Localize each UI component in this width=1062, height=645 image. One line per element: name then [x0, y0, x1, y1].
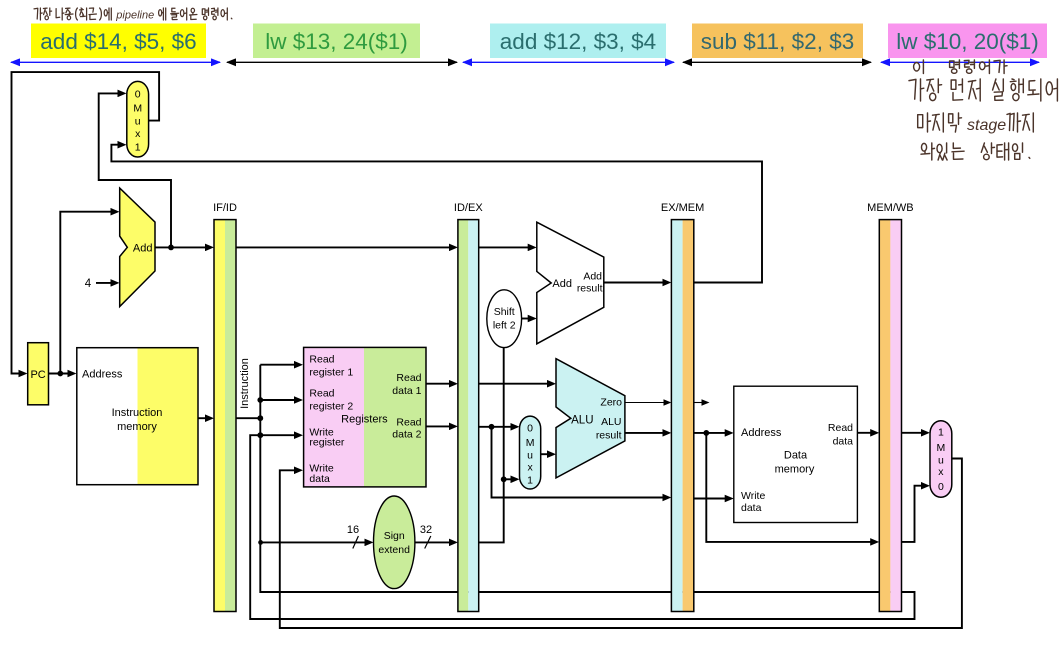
svg-text:x: x — [135, 128, 141, 140]
instruction label lw $10,20($1) — [888, 24, 1047, 59]
svg-text:Read: Read — [396, 372, 421, 384]
stage span arrow ID (black) — [227, 61, 457, 63]
wire: EX/MEM ALU result to Data memory Address — [694, 432, 731, 434]
wire: EX/MEM store data to Data memory Write data — [694, 498, 731, 500]
svg-text:EX/MEM: EX/MEM — [661, 202, 704, 214]
wire: ID/EX read data 2 to ALU mux input 0 — [479, 426, 517, 428]
svg-text:0: 0 — [527, 423, 533, 435]
pipeline register EX/MEM — [671, 220, 682, 612]
svg-text:M: M — [526, 437, 535, 449]
svg-text:x: x — [527, 462, 533, 474]
wire: immediate up to shift left 2 and ALU mux input 1 — [479, 348, 504, 543]
svg-text:Instruction: Instruction — [239, 358, 251, 409]
instruction label sub $11,$2,$3 — [692, 24, 863, 59]
wire: MEM/WB read data to WB mux input 1 — [902, 432, 928, 434]
node: instruction bus junctions — [257, 397, 263, 403]
wire: Data memory Read data to MEM/WB — [857, 432, 876, 434]
instruction memory — [77, 348, 198, 485]
svg-text:Zero: Zero — [600, 396, 622, 408]
wire: Add(branch) result to EX/MEM — [604, 282, 669, 284]
svg-text:x: x — [938, 466, 944, 478]
svg-text:0: 0 — [135, 89, 141, 101]
wire: bus to Read register 2 — [260, 399, 300, 401]
sign extend — [374, 496, 415, 589]
wire: IF/ID instruction bus — [236, 417, 260, 419]
instruction label lw $13,24($1) — [253, 24, 420, 59]
wire: instruction memory to IF/ID — [198, 417, 212, 419]
instruction label add $14,$5,$6 — [31, 24, 206, 59]
svg-text:Read: Read — [828, 422, 853, 434]
shift left 2 — [487, 290, 522, 348]
svg-text:Write: Write — [741, 490, 765, 502]
wire: constant 4 into Add — [96, 282, 117, 284]
svg-text:register 1: register 1 — [309, 367, 353, 379]
svg-text:PC: PC — [30, 369, 45, 381]
pipeline register IF/ID — [214, 220, 225, 612]
svg-text:Add: Add — [583, 271, 602, 283]
svg-text:Read: Read — [309, 354, 334, 366]
svg-text:4: 4 — [85, 278, 92, 290]
svg-text:memory: memory — [117, 421, 157, 433]
data memory — [734, 386, 858, 522]
svg-text:data: data — [833, 436, 854, 448]
wire: WB mux output loop to Registers Write data — [280, 459, 962, 629]
svg-text:Sign: Sign — [384, 530, 405, 542]
svg-text:data 2: data 2 — [392, 428, 421, 440]
registers block — [304, 347, 364, 487]
wire: mux output loop to PC — [12, 72, 160, 373]
svg-text:1: 1 — [527, 475, 533, 487]
svg-text:1: 1 — [938, 427, 944, 439]
svg-text:add $12, $3, $4: add $12, $3, $4 — [500, 29, 656, 54]
svg-text:32: 32 — [420, 524, 432, 536]
svg-text:Data: Data — [784, 450, 808, 462]
svg-text:Add: Add — [552, 278, 572, 290]
wire: instruction bus vertical + write-reg bottom loop A/B — [250, 365, 914, 619]
svg-text:stage: stage — [967, 117, 1006, 134]
wire: ALU result to EX/MEM — [625, 432, 669, 434]
wire: read data 2 down to EX/MEM (store data) — [492, 427, 669, 498]
wire: ID/EX PC+4 to Add (branch adder) — [479, 246, 535, 248]
svg-text:extend: extend — [378, 544, 410, 556]
wire: Registers Read data 2 to ID/EX — [426, 425, 455, 427]
svg-text:u: u — [938, 455, 944, 467]
handwritten note right — [909, 60, 1057, 160]
svg-text:add $14, $5, $6: add $14, $5, $6 — [40, 29, 196, 54]
svg-text:memory: memory — [775, 464, 815, 476]
PC — [28, 343, 49, 405]
svg-text:MEM/WB: MEM/WB — [867, 202, 913, 214]
wire: Add output to IF/ID — [155, 246, 212, 248]
stage span arrow IF (blue) — [11, 61, 220, 63]
wire: Registers Read data 1 to ID/EX — [426, 383, 455, 385]
wire: PC+4 loop to mux input 0 — [99, 93, 171, 247]
wire: ALU result around memory to MEM/WB — [706, 433, 876, 542]
adder PC+4 (Add) — [120, 188, 155, 306]
wire: IF/ID PC+4 to ID/EX — [236, 246, 455, 248]
svg-text:1: 1 — [135, 142, 141, 154]
instruction label add $12,$3,$4 — [490, 24, 666, 59]
wire: ALU Zero to EX/MEM (thin) — [625, 402, 669, 404]
pc mux (0 Mux 1) — [127, 81, 149, 157]
adder branch target (Add) white — [537, 222, 604, 344]
svg-text:lw $10, 20($1): lw $10, 20($1) — [896, 29, 1039, 54]
svg-text:data 1: data 1 — [392, 385, 421, 397]
svg-text:IF/ID: IF/ID — [213, 202, 237, 214]
wire: bus to sign extend (16 bits) — [260, 541, 371, 543]
svg-text:result: result — [577, 283, 603, 295]
svg-text:register 2: register 2 — [309, 401, 353, 413]
svg-text:result: result — [596, 430, 622, 442]
wb mux (1 Mux 0) — [930, 421, 952, 498]
wire: ALU mux output to ALU — [541, 453, 554, 455]
stage span arrow WB (blue) — [881, 61, 1039, 63]
svg-text:ALU: ALU — [601, 416, 621, 428]
node: ALU result fork — [703, 430, 709, 436]
svg-text:ALU: ALU — [571, 415, 593, 427]
svg-text:sub $11, $2, $3: sub $11, $2, $3 — [701, 29, 854, 54]
alu mux (0 Mux 1) — [520, 416, 541, 489]
node: PC output junction — [57, 371, 63, 377]
svg-text:Shift: Shift — [494, 306, 515, 318]
wire: PC up to Add input — [60, 212, 117, 374]
svg-text:Read: Read — [309, 388, 334, 400]
wire: bus to Read register 1 — [260, 364, 300, 366]
svg-text:16: 16 — [347, 524, 359, 536]
svg-text:data: data — [741, 502, 762, 514]
node: read data 2 fork — [489, 424, 495, 430]
svg-text:Add: Add — [133, 243, 153, 255]
svg-text:Registers: Registers — [341, 414, 388, 426]
svg-text:left 2: left 2 — [493, 320, 516, 332]
node: PC+4 junction — [168, 245, 174, 251]
pipeline register MEM/WB — [879, 220, 890, 612]
svg-text:M: M — [133, 103, 142, 115]
svg-text:u: u — [527, 450, 533, 462]
svg-text:Address: Address — [741, 427, 782, 439]
svg-text:Instruction: Instruction — [112, 407, 163, 419]
svg-text:data: data — [309, 473, 330, 485]
wire: MEM/WB ALU result to WB mux input 0 — [902, 486, 928, 542]
svg-text:0: 0 — [938, 481, 944, 493]
pipeline register ID/EX — [458, 220, 468, 612]
svg-text:Address: Address — [82, 368, 123, 380]
stage span arrow EX (blue) — [463, 61, 674, 63]
node: immediate fork — [501, 476, 507, 482]
svg-text:M: M — [937, 442, 946, 454]
ALU — [556, 359, 625, 478]
svg-text:ID/EX: ID/EX — [454, 202, 483, 214]
wire: EX/MEM Zero stub (thin) — [694, 402, 707, 404]
wire: ID/EX read data 1 to ALU — [479, 383, 554, 385]
svg-text:pipeline: pipeline — [115, 10, 154, 22]
wire: shift left 2 to Add(branch) — [522, 318, 535, 320]
wire: PC to instruction memory Address — [49, 373, 75, 375]
svg-text:lw $13, 24($1): lw $13, 24($1) — [265, 29, 408, 54]
svg-text:Read: Read — [396, 416, 421, 428]
handwritten note top-left — [34, 8, 232, 22]
svg-text:register: register — [309, 437, 345, 449]
wire: branch target into mux input 1 — [111, 145, 762, 283]
svg-text:u: u — [135, 116, 141, 128]
wire: sign extend output (32) to ID/EX — [415, 541, 455, 543]
stage span arrow MEM (black) — [683, 61, 871, 63]
